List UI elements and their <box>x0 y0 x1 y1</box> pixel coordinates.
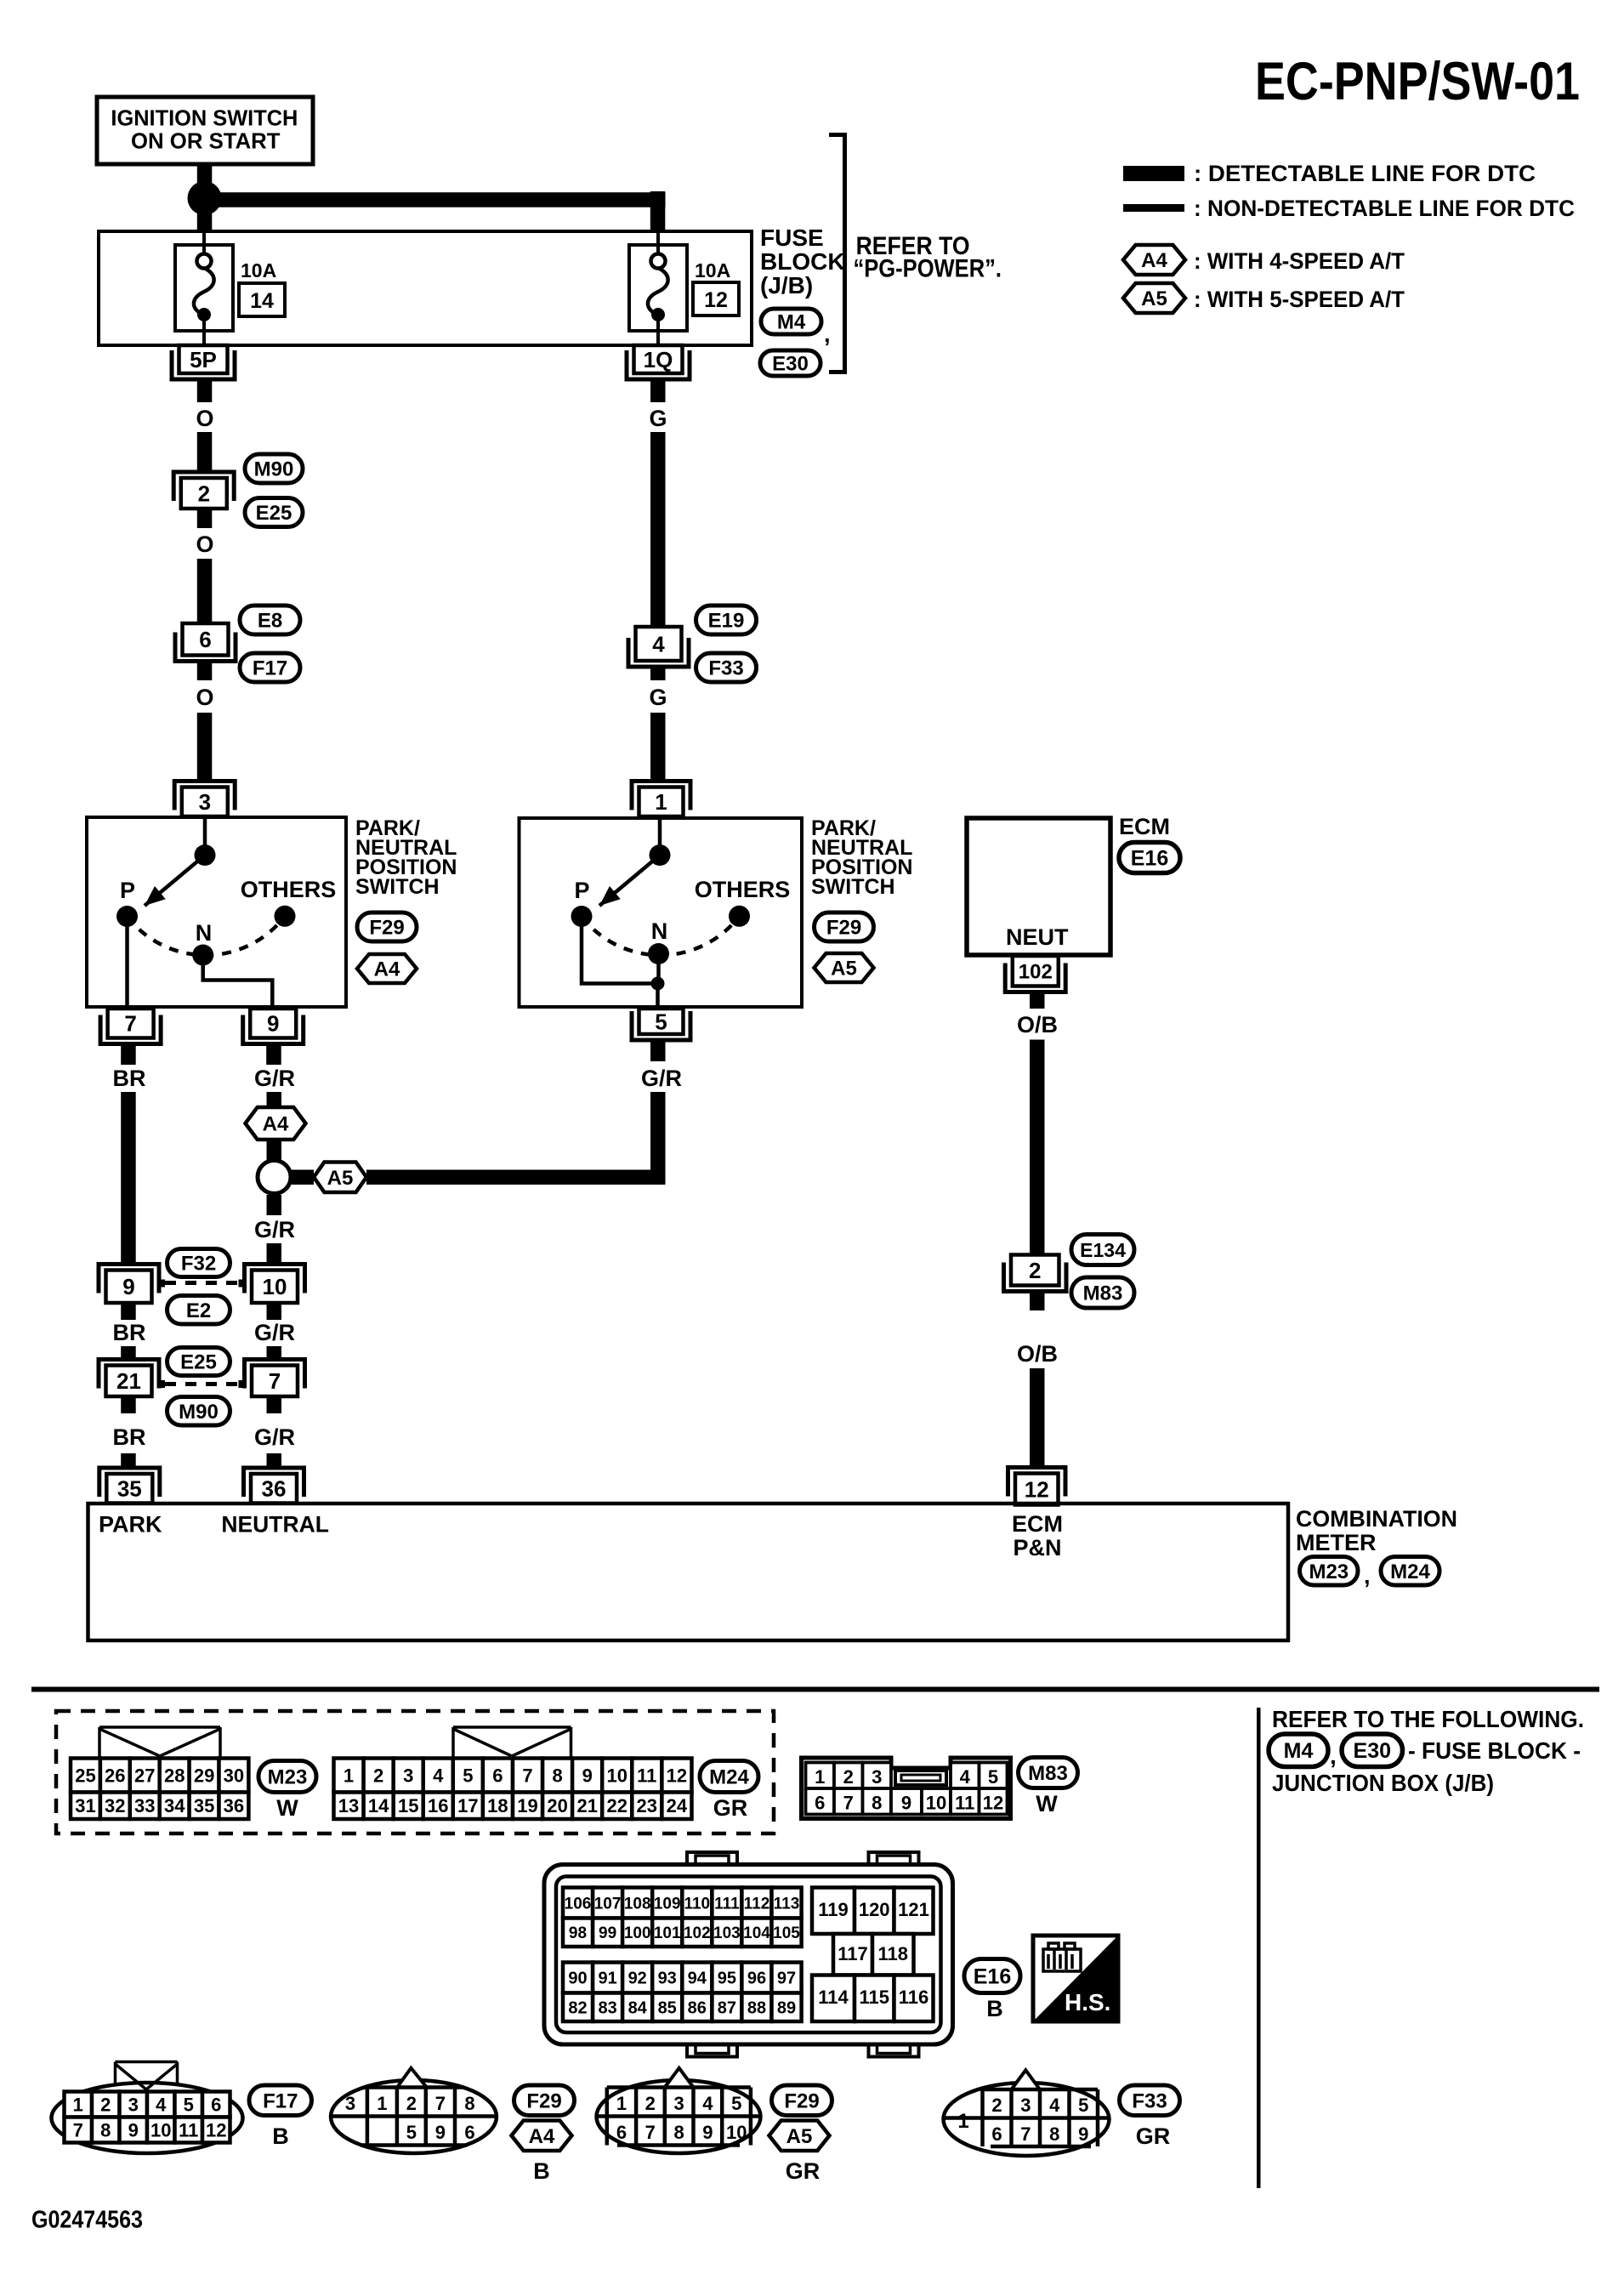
ECM box <box>967 818 1110 955</box>
svg-text:111: 111 <box>714 1895 740 1913</box>
wire G/R to connector 7 <box>267 1346 282 1360</box>
connector 5 below switch <box>632 1011 690 1040</box>
svg-text:12: 12 <box>206 2119 226 2140</box>
svg-text:A5: A5 <box>831 958 857 981</box>
wire P to pin 7 <box>125 917 129 1008</box>
hexagon A4 bottom <box>512 2121 572 2152</box>
wire N to junction <box>656 954 661 984</box>
switch arm arrow to P <box>599 856 660 907</box>
svg-text:9: 9 <box>435 2122 446 2143</box>
connector label E25 lower <box>168 1348 230 1376</box>
svg-text:10: 10 <box>726 2122 747 2143</box>
dashed travel arc <box>128 916 286 955</box>
svg-text:114: 114 <box>818 1987 849 2008</box>
contact P dot <box>116 906 138 927</box>
svg-text:F17: F17 <box>253 657 287 680</box>
svg-text:36: 36 <box>262 1476 287 1502</box>
svg-text:89: 89 <box>777 1998 796 2017</box>
svg-text:121: 121 <box>898 1899 929 1920</box>
svg-text:JUNCTION BOX (J/B): JUNCTION BOX (J/B) <box>1272 1770 1494 1796</box>
svg-text:101: 101 <box>654 1924 681 1942</box>
svg-text:BR: BR <box>113 1424 146 1450</box>
svg-text:,: , <box>824 321 831 347</box>
connector label M23 meter <box>1300 1557 1359 1586</box>
connector 1 <box>632 782 690 810</box>
contact OTHERS dot <box>729 906 750 927</box>
svg-text:11: 11 <box>955 1793 974 1814</box>
svg-text:G: G <box>649 685 667 710</box>
divider line <box>1257 1708 1261 2188</box>
switch common dot <box>650 844 671 866</box>
connector label E8 <box>240 605 300 634</box>
wire below connector 4 <box>650 668 666 681</box>
svg-text:NEUTRAL: NEUTRAL <box>221 1512 329 1538</box>
svg-text:88: 88 <box>747 1998 766 2017</box>
svg-text:METER: METER <box>1296 1530 1377 1555</box>
svg-text:A5: A5 <box>1141 287 1167 310</box>
svg-text:B: B <box>272 2123 289 2149</box>
svg-text:6: 6 <box>199 627 211 652</box>
svg-text:8: 8 <box>552 1765 562 1786</box>
switch input line <box>658 818 662 846</box>
wire from ignition switch <box>197 164 213 183</box>
hexagon A5 bottom <box>769 2121 830 2152</box>
svg-text:27: 27 <box>134 1765 155 1786</box>
wire A4 to junction circle <box>267 1140 282 1161</box>
svg-text:33: 33 <box>134 1795 155 1816</box>
svg-text:: NON-DETECTABLE LINE FOR DTC: : NON-DETECTABLE LINE FOR DTC <box>1194 196 1575 221</box>
svg-text:SWITCH: SWITCH <box>355 875 440 899</box>
svg-text:2: 2 <box>645 2093 656 2114</box>
separator line <box>31 1687 1599 1692</box>
svg-text:E2: E2 <box>186 1299 211 1322</box>
svg-text:1: 1 <box>616 2093 627 2114</box>
svg-text:M24: M24 <box>709 1766 749 1789</box>
svg-text:6: 6 <box>616 2122 627 2143</box>
svg-text:4: 4 <box>156 2094 167 2115</box>
wire P to junction <box>582 917 651 984</box>
svg-text:M90: M90 <box>254 458 294 481</box>
svg-text:3: 3 <box>345 2093 355 2114</box>
svg-text:87: 87 <box>718 1998 736 2017</box>
connector label F17 <box>249 2085 312 2116</box>
svg-text:6: 6 <box>464 2122 474 2143</box>
svg-text:E25: E25 <box>256 502 292 525</box>
svg-text:4: 4 <box>1049 2095 1060 2116</box>
svg-text:F17: F17 <box>263 2089 298 2112</box>
connector 21 E25/M90 <box>99 1360 159 1389</box>
svg-text:8: 8 <box>872 1793 882 1814</box>
svg-text:G: G <box>649 406 667 431</box>
connector 102 <box>1005 964 1065 992</box>
svg-text:8: 8 <box>673 2122 684 2143</box>
svg-text:E19: E19 <box>708 610 745 633</box>
svg-text:F29: F29 <box>784 2089 819 2112</box>
wire below connector 6 <box>197 663 213 681</box>
svg-text:W: W <box>276 1795 298 1821</box>
junction circle <box>258 1161 291 1194</box>
svg-text:5: 5 <box>655 1009 667 1034</box>
junction node dot <box>188 181 222 215</box>
fuse number box 12 <box>693 282 739 316</box>
wire BR to connector 21 <box>121 1346 136 1360</box>
switch common dot <box>195 844 216 866</box>
svg-text:BLOCK: BLOCK <box>760 248 845 275</box>
connector face M23 pin grid <box>71 1759 100 1793</box>
svg-text:4: 4 <box>960 1766 971 1788</box>
connector label F33 <box>696 653 757 682</box>
svg-text:14: 14 <box>250 289 274 313</box>
svg-text:6: 6 <box>991 2123 1002 2145</box>
svg-text:16: 16 <box>428 1795 448 1816</box>
wire below pin 5 <box>650 1040 666 1061</box>
connector face M83 <box>802 1758 1011 1819</box>
svg-text:12: 12 <box>983 1793 1003 1814</box>
svg-text:FUSE: FUSE <box>760 225 824 251</box>
svg-text:102: 102 <box>684 1924 711 1942</box>
svg-text:: WITH 4-SPEED A/T: : WITH 4-SPEED A/T <box>1194 248 1405 274</box>
dashed option box <box>56 1711 774 1833</box>
svg-text:- FUSE BLOCK -: - FUSE BLOCK - <box>1408 1737 1581 1764</box>
wire BR to pin 35 <box>121 1453 136 1469</box>
wire BR long segment <box>121 1092 136 1265</box>
E16 pin grid lower <box>563 1963 593 1993</box>
svg-text:F29: F29 <box>826 917 861 940</box>
svg-text:12: 12 <box>1025 1476 1049 1502</box>
svg-text:O: O <box>196 685 213 710</box>
svg-text:18: 18 <box>487 1795 508 1816</box>
svg-text:1: 1 <box>815 1766 825 1788</box>
connector 2 M90/E25 <box>173 472 234 501</box>
connector face F17 <box>52 2083 243 2153</box>
connector 7 below switch <box>100 1015 161 1044</box>
connector face F33 <box>944 2083 1110 2156</box>
svg-text:,: , <box>1330 1742 1337 1769</box>
svg-text:113: 113 <box>774 1895 800 1913</box>
svg-text:G/R: G/R <box>254 1320 295 1345</box>
wire G segment <box>650 432 666 627</box>
contact OTHERS dot <box>275 906 296 927</box>
connector face M24 roof <box>453 1727 571 1757</box>
svg-text:E8: E8 <box>258 610 282 633</box>
svg-text:25: 25 <box>75 1765 95 1786</box>
wire junction to pin 5 <box>656 984 660 1008</box>
connector 9 F32/E2 <box>99 1265 159 1293</box>
svg-text:95: 95 <box>718 1970 736 1988</box>
svg-text:COMBINATION: COMBINATION <box>1296 1506 1457 1532</box>
svg-text:110: 110 <box>684 1895 710 1913</box>
svg-text:2: 2 <box>373 1765 383 1786</box>
svg-text:G/R: G/R <box>254 1424 295 1450</box>
svg-text:OTHERS: OTHERS <box>695 877 791 902</box>
svg-text:91: 91 <box>598 1970 616 1988</box>
wire O segment <box>197 559 213 623</box>
svg-text:98: 98 <box>569 1924 587 1942</box>
svg-text:M83: M83 <box>1028 1762 1068 1785</box>
svg-text:ON OR START: ON OR START <box>131 128 281 154</box>
hexagon A4 inline <box>246 1107 306 1140</box>
connector 9 below switch <box>243 1015 304 1044</box>
connector 5P <box>172 350 235 379</box>
wire below 102 <box>1030 992 1045 1009</box>
svg-text:109: 109 <box>654 1895 681 1913</box>
wire below connector 7 <box>267 1396 282 1413</box>
connector label M4 <box>761 309 821 334</box>
connector face M23 roof <box>99 1727 220 1757</box>
svg-text:7: 7 <box>522 1765 532 1786</box>
svg-text:15: 15 <box>398 1795 418 1816</box>
svg-text:6: 6 <box>211 2094 221 2115</box>
connector label E16 <box>1119 843 1180 873</box>
connector 12 on meter <box>1008 1468 1066 1497</box>
svg-text:7: 7 <box>435 2093 446 2114</box>
svg-text:EC-PNP/SW-01: EC-PNP/SW-01 <box>1255 52 1580 111</box>
svg-text:2: 2 <box>406 2093 417 2114</box>
svg-text:115: 115 <box>859 1987 889 2008</box>
E16 shell tabs <box>687 1852 737 1865</box>
svg-text:35: 35 <box>117 1476 142 1502</box>
svg-text:84: 84 <box>628 1998 648 2017</box>
H.S. logo <box>1033 1936 1118 2021</box>
svg-text:A4: A4 <box>263 1113 289 1136</box>
svg-text:F29: F29 <box>369 917 404 940</box>
svg-text:104: 104 <box>743 1924 770 1942</box>
svg-text:99: 99 <box>599 1924 616 1942</box>
svg-text:120: 120 <box>859 1899 890 1920</box>
svg-text:G/R: G/R <box>254 1217 295 1242</box>
svg-text:M4: M4 <box>1284 1739 1314 1763</box>
svg-text:N: N <box>651 918 668 944</box>
svg-text:90: 90 <box>568 1970 587 1988</box>
svg-text:REFER TO THE FOLLOWING.: REFER TO THE FOLLOWING. <box>1272 1706 1584 1732</box>
wire N to pin 9 <box>203 955 273 1007</box>
connector label F33 bottom <box>1120 2085 1180 2116</box>
wire G/R down to A5 line <box>650 1092 666 1177</box>
svg-text:97: 97 <box>777 1970 796 1988</box>
svg-text:M90: M90 <box>179 1401 219 1424</box>
svg-text:7: 7 <box>1020 2123 1031 2145</box>
svg-text:96: 96 <box>747 1970 766 1988</box>
svg-text:B: B <box>533 2158 550 2184</box>
svg-text:86: 86 <box>688 1998 707 2017</box>
svg-text:85: 85 <box>658 1998 677 2017</box>
svg-text:A4: A4 <box>374 958 400 981</box>
connector label F29 a4 <box>514 2085 575 2116</box>
svg-text:1: 1 <box>655 789 667 815</box>
connector label M4 bottom <box>1269 1734 1328 1767</box>
svg-text:17: 17 <box>457 1795 478 1816</box>
svg-text:9: 9 <box>582 1765 593 1786</box>
svg-text:“PG-POWER”.: “PG-POWER”. <box>854 255 1002 283</box>
wire O/B segment <box>1030 1040 1045 1255</box>
svg-text:N: N <box>196 920 213 946</box>
connector label M24 <box>700 1761 758 1793</box>
svg-text:NEUT: NEUT <box>1006 924 1069 950</box>
svg-text:P: P <box>574 878 589 903</box>
connector 35 on meter <box>99 1468 160 1497</box>
svg-text:G/R: G/R <box>254 1066 295 1091</box>
svg-text:20: 20 <box>547 1795 567 1816</box>
svg-text:36: 36 <box>224 1795 244 1816</box>
svg-text:M23: M23 <box>268 1766 308 1789</box>
legend detectable line sample bar <box>1123 166 1184 181</box>
svg-text:6: 6 <box>815 1793 825 1814</box>
svg-text:BR: BR <box>113 1320 146 1345</box>
connector label F29 a5 <box>772 2085 832 2116</box>
refer-to bracket <box>829 135 845 372</box>
svg-text:3: 3 <box>128 2094 139 2115</box>
wire below pin 9 <box>266 1044 281 1066</box>
connector label M83 bottom <box>1019 1758 1078 1788</box>
svg-text:A4: A4 <box>529 2125 555 2148</box>
legend hexagon A4 <box>1123 245 1185 275</box>
connector 36 on meter <box>244 1468 304 1497</box>
svg-text:7: 7 <box>73 2119 83 2140</box>
svg-text:M83: M83 <box>1083 1282 1123 1305</box>
svg-text:117: 117 <box>838 1943 868 1964</box>
svg-text:GR: GR <box>1136 2123 1171 2149</box>
junction dot in switch <box>651 977 665 991</box>
fuse number box 14 <box>239 283 285 316</box>
connector face F29 (A5) <box>597 2080 761 2153</box>
wire below connector 2 <box>197 509 213 529</box>
svg-text:102: 102 <box>1019 960 1053 983</box>
svg-text:F33: F33 <box>708 657 743 680</box>
svg-text:5: 5 <box>406 2122 417 2143</box>
svg-text:11: 11 <box>637 1765 656 1786</box>
svg-text:7: 7 <box>124 1011 136 1037</box>
svg-text:4: 4 <box>702 2093 713 2114</box>
svg-text:26: 26 <box>105 1765 125 1786</box>
svg-text:ECM: ECM <box>1012 1511 1063 1537</box>
wire below pin 7 <box>121 1044 136 1066</box>
switch input line <box>203 817 207 846</box>
svg-text:3: 3 <box>403 1765 413 1786</box>
park/neutral position switch box (A5) <box>520 818 803 1007</box>
svg-text:2: 2 <box>100 2094 111 2115</box>
connector 10 F32/E2 <box>245 1265 305 1293</box>
connector label F29 left <box>357 912 417 941</box>
svg-text:E16: E16 <box>1131 847 1168 871</box>
wire below connector 21 <box>121 1396 136 1413</box>
connector label F29 right <box>815 912 874 941</box>
hexagon A4 left switch <box>357 954 417 983</box>
svg-text:105: 105 <box>773 1924 800 1942</box>
connector 3 <box>174 782 235 810</box>
svg-text:O/B: O/B <box>1017 1341 1058 1367</box>
svg-text:13: 13 <box>338 1795 359 1816</box>
dashed pair link <box>158 1280 165 1288</box>
svg-text:A5: A5 <box>327 1167 354 1190</box>
connector 2 E134/M83 <box>1004 1263 1067 1292</box>
fuse block box <box>99 231 752 345</box>
svg-text:P&N: P&N <box>1013 1535 1061 1560</box>
svg-text:21: 21 <box>116 1368 141 1394</box>
svg-text:12: 12 <box>704 288 728 312</box>
park/neutral position switch box (A4) <box>87 817 346 1007</box>
connector label M90 <box>245 454 303 483</box>
svg-text:2: 2 <box>991 2095 1002 2116</box>
connector label F17 <box>240 653 300 682</box>
stub circle to A5 <box>292 1170 314 1185</box>
hexagon A5 inline <box>314 1163 366 1193</box>
svg-text:GR: GR <box>786 2158 821 2184</box>
svg-text:10A: 10A <box>241 259 276 281</box>
svg-text:19: 19 <box>517 1795 537 1816</box>
svg-text:E30: E30 <box>1354 1739 1391 1763</box>
connector face F29 (A4) <box>331 2080 497 2153</box>
svg-text:H.S.: H.S. <box>1065 1989 1110 2015</box>
wire below 5P <box>197 379 213 402</box>
svg-text:3: 3 <box>199 789 211 815</box>
contact N dot <box>648 943 669 964</box>
legend hexagon A5 <box>1123 283 1185 313</box>
svg-text:: WITH 5-SPEED A/T: : WITH 5-SPEED A/T <box>1194 287 1405 312</box>
svg-text:O: O <box>196 406 213 431</box>
thick wire A5 to right column <box>366 1170 666 1185</box>
svg-text:9: 9 <box>267 1011 279 1037</box>
svg-text:8: 8 <box>100 2119 111 2140</box>
svg-text:5: 5 <box>1078 2095 1088 2116</box>
wire below junction circle <box>267 1195 282 1215</box>
svg-text:E16: E16 <box>974 1965 1011 1989</box>
svg-text:31: 31 <box>75 1795 95 1816</box>
svg-text:G02474563: G02474563 <box>31 2207 143 2234</box>
switch arm arrow to P <box>145 856 205 907</box>
svg-text:ECM: ECM <box>1119 814 1170 839</box>
svg-text:O/B: O/B <box>1017 1012 1058 1037</box>
svg-text:5: 5 <box>184 2094 194 2115</box>
svg-text:GR: GR <box>713 1795 748 1821</box>
ignition switch box <box>97 97 313 164</box>
svg-text:119: 119 <box>818 1899 849 1920</box>
wire below connector 10 <box>267 1303 282 1320</box>
svg-text:100: 100 <box>624 1924 651 1942</box>
connector 6 E8/F17 <box>175 633 236 662</box>
connector label E134 <box>1071 1235 1134 1265</box>
svg-text:10: 10 <box>150 2119 171 2140</box>
svg-text:3: 3 <box>673 2093 684 2114</box>
connector label M24 meter <box>1381 1557 1439 1586</box>
svg-text:1Q: 1Q <box>644 347 673 372</box>
svg-text:OTHERS: OTHERS <box>241 877 337 902</box>
svg-text:9: 9 <box>1078 2123 1088 2145</box>
svg-text:9: 9 <box>122 1274 134 1299</box>
svg-text:1: 1 <box>344 1765 354 1786</box>
connector label M23 <box>258 1761 316 1793</box>
connector 1Q <box>627 350 690 379</box>
svg-text:BR: BR <box>113 1066 146 1091</box>
svg-text:P: P <box>120 878 135 903</box>
svg-text:23: 23 <box>637 1795 657 1816</box>
svg-text:5: 5 <box>988 1766 998 1788</box>
contact N dot <box>192 945 213 966</box>
contact P dot <box>571 906 593 927</box>
svg-text:22: 22 <box>607 1795 627 1816</box>
fuse 10A 14 <box>175 245 233 331</box>
wire O segment <box>197 432 213 471</box>
connector label E30 <box>760 350 821 376</box>
svg-text:E25: E25 <box>180 1351 217 1374</box>
svg-text:3: 3 <box>1020 2095 1031 2116</box>
svg-text:1: 1 <box>377 2093 387 2114</box>
legend non-detectable line sample bar <box>1123 204 1184 212</box>
svg-text:12: 12 <box>667 1765 687 1786</box>
svg-text:SWITCH: SWITCH <box>811 875 895 899</box>
svg-text:3: 3 <box>872 1766 882 1788</box>
svg-text:24: 24 <box>667 1795 688 1816</box>
connector face E16 outer shell <box>544 1865 953 2045</box>
